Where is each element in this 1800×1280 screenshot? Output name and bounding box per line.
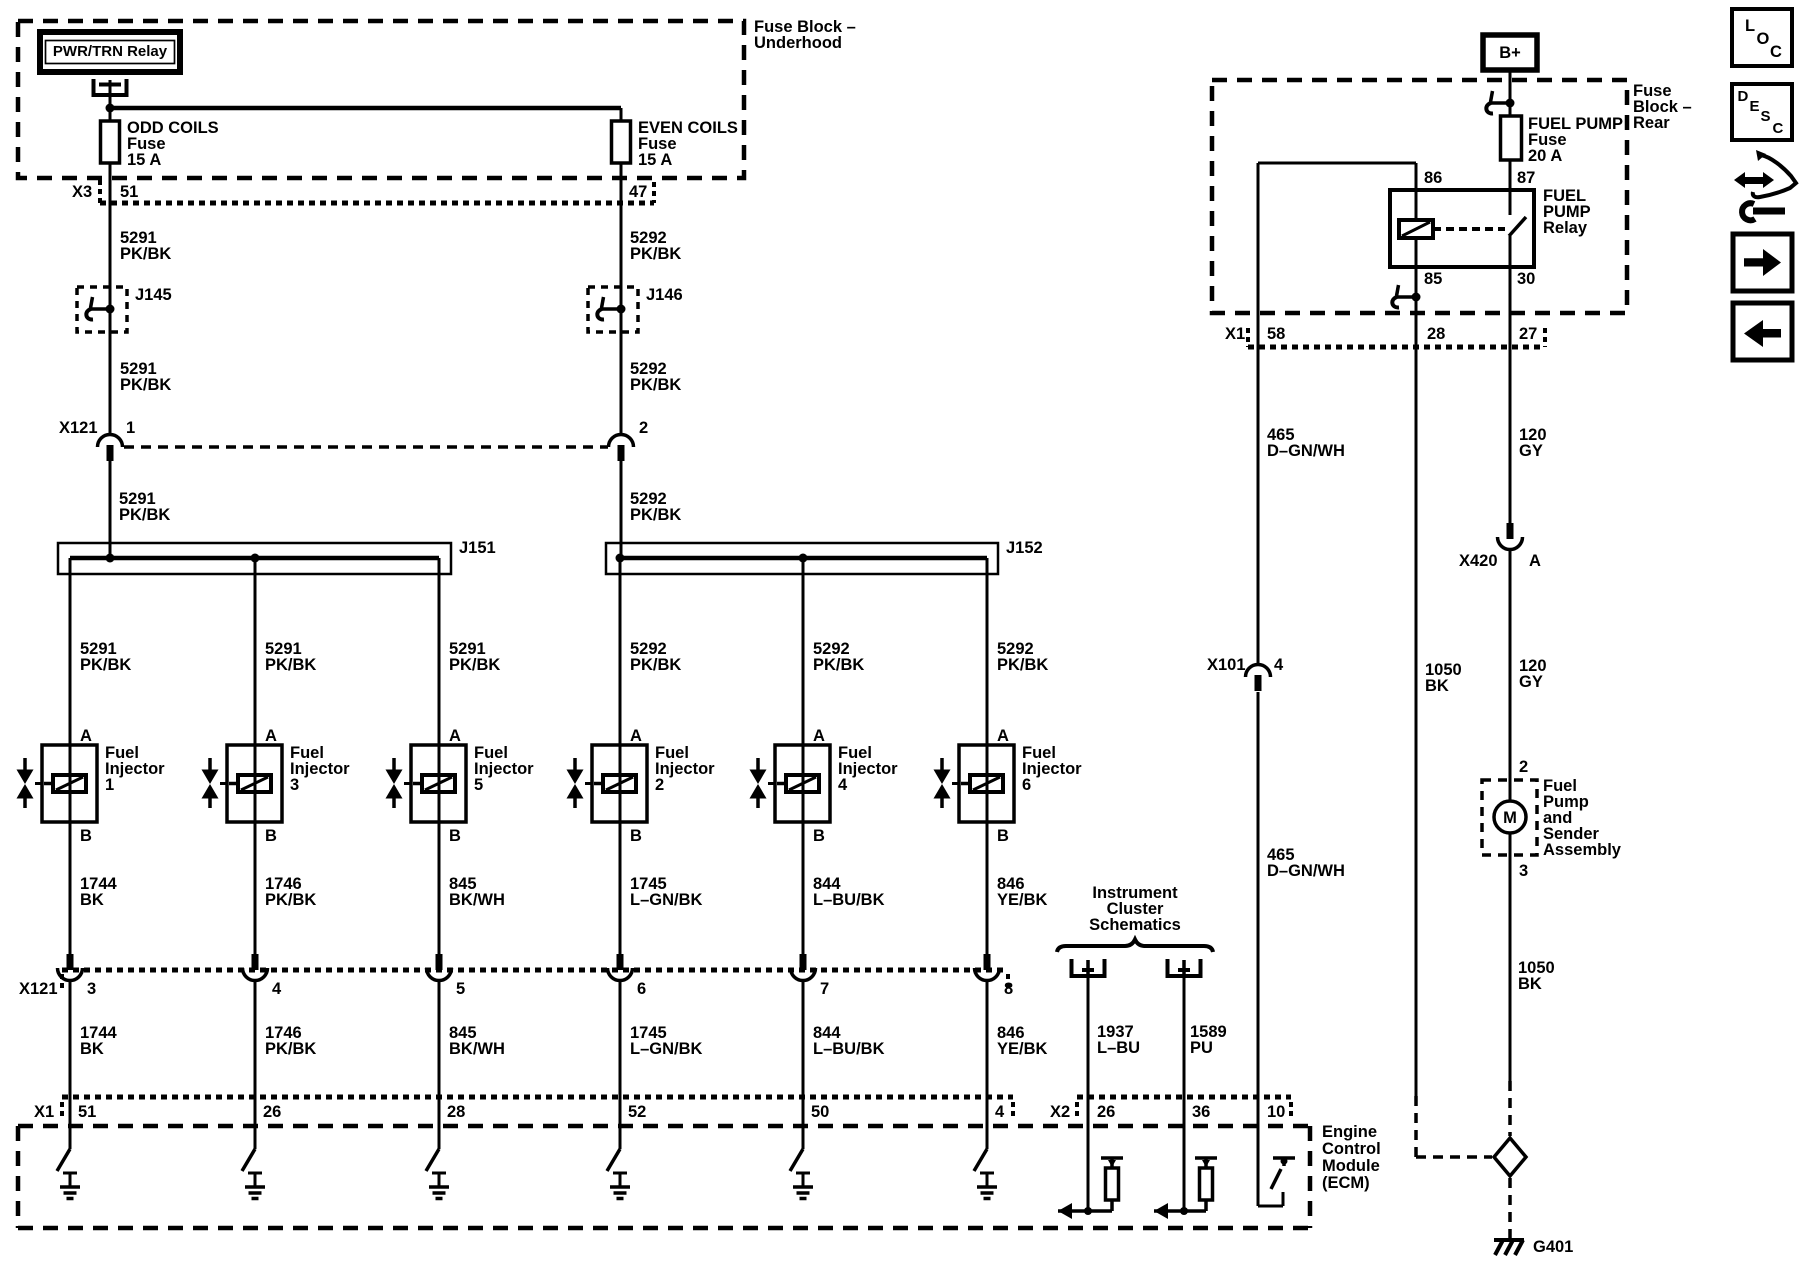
svg-text:87: 87 <box>1517 169 1535 187</box>
svg-text:B: B <box>997 827 1009 845</box>
svg-text:PK/BK: PK/BK <box>630 656 681 674</box>
svg-text:PK/BK: PK/BK <box>630 376 681 394</box>
svg-text:7: 7 <box>820 980 829 998</box>
svg-text:M: M <box>1503 809 1517 827</box>
svg-text:Relay: Relay <box>1543 219 1588 237</box>
svg-text:Rear: Rear <box>1633 114 1670 132</box>
svg-text:E: E <box>1750 98 1760 115</box>
svg-text:A: A <box>80 727 92 745</box>
svg-text:PWR/TRN Relay: PWR/TRN Relay <box>53 43 168 60</box>
svg-text:X420: X420 <box>1459 552 1498 570</box>
svg-text:X121: X121 <box>59 419 98 437</box>
svg-text:B: B <box>80 827 92 845</box>
svg-text:J146: J146 <box>646 286 683 304</box>
svg-text:PK/BK: PK/BK <box>265 1040 316 1058</box>
svg-text:1: 1 <box>126 419 135 437</box>
svg-text:28: 28 <box>1427 325 1445 343</box>
svg-text:O: O <box>1757 30 1770 48</box>
svg-text:28: 28 <box>447 1103 465 1121</box>
svg-text:8: 8 <box>1004 980 1013 998</box>
svg-text:L: L <box>1745 17 1755 35</box>
svg-text:6: 6 <box>637 980 646 998</box>
svg-text:PK/BK: PK/BK <box>813 656 864 674</box>
svg-text:15 A: 15 A <box>638 151 672 169</box>
svg-text:A: A <box>265 727 277 745</box>
svg-text:52: 52 <box>628 1103 646 1121</box>
svg-text:3: 3 <box>290 776 299 794</box>
svg-text:X101: X101 <box>1207 656 1246 674</box>
svg-text:A: A <box>1529 552 1541 570</box>
svg-text:YE/BK: YE/BK <box>997 891 1048 909</box>
svg-text:Engine: Engine <box>1322 1123 1377 1141</box>
svg-text:Module: Module <box>1322 1157 1380 1175</box>
svg-text:36: 36 <box>1192 1103 1210 1121</box>
svg-text:G401: G401 <box>1533 1238 1573 1256</box>
svg-text:PK/BK: PK/BK <box>449 656 500 674</box>
svg-text:85: 85 <box>1424 270 1442 288</box>
svg-text:GY: GY <box>1519 673 1543 691</box>
svg-text:1: 1 <box>105 776 114 794</box>
svg-text:L–BU/BK: L–BU/BK <box>813 1040 885 1058</box>
svg-text:BK/WH: BK/WH <box>449 1040 505 1058</box>
svg-text:BK: BK <box>80 891 104 909</box>
svg-text:A: A <box>813 727 825 745</box>
svg-text:2: 2 <box>1519 758 1528 776</box>
svg-text:J151: J151 <box>459 539 496 557</box>
svg-text:L–BU: L–BU <box>1097 1039 1140 1057</box>
svg-text:C: C <box>1770 43 1782 61</box>
svg-text:PK/BK: PK/BK <box>120 245 171 263</box>
svg-text:20 A: 20 A <box>1528 147 1562 165</box>
svg-text:PK/BK: PK/BK <box>265 656 316 674</box>
svg-text:PK/BK: PK/BK <box>630 506 681 524</box>
svg-text:X1: X1 <box>1225 325 1245 343</box>
svg-text:4: 4 <box>272 980 282 998</box>
svg-text:B: B <box>449 827 461 845</box>
svg-text:X3: X3 <box>72 183 92 201</box>
svg-text:PK/BK: PK/BK <box>630 245 681 263</box>
svg-text:L–GN/BK: L–GN/BK <box>630 891 703 909</box>
svg-text:X2: X2 <box>1050 1103 1070 1121</box>
svg-text:C: C <box>1773 120 1784 137</box>
svg-text:4: 4 <box>838 776 848 794</box>
svg-text:2: 2 <box>655 776 664 794</box>
svg-text:PU: PU <box>1190 1039 1213 1057</box>
svg-text:GY: GY <box>1519 442 1543 460</box>
svg-text:PK/BK: PK/BK <box>120 376 171 394</box>
svg-text:Underhood: Underhood <box>754 34 842 52</box>
svg-text:B: B <box>265 827 277 845</box>
svg-text:27: 27 <box>1519 325 1537 343</box>
svg-text:3: 3 <box>1519 862 1528 880</box>
svg-text:10: 10 <box>1267 1103 1285 1121</box>
svg-text:Schematics: Schematics <box>1089 916 1181 934</box>
svg-text:15 A: 15 A <box>127 151 161 169</box>
svg-text:PK/BK: PK/BK <box>80 656 131 674</box>
svg-text:A: A <box>449 727 461 745</box>
svg-text:4: 4 <box>1274 656 1284 674</box>
svg-text:Assembly: Assembly <box>1543 841 1622 859</box>
svg-text:30: 30 <box>1517 270 1535 288</box>
svg-text:B: B <box>630 827 642 845</box>
svg-text:BK: BK <box>80 1040 104 1058</box>
svg-text:26: 26 <box>263 1103 281 1121</box>
svg-text:BK/WH: BK/WH <box>449 891 505 909</box>
svg-text:51: 51 <box>120 183 138 201</box>
svg-text:B+: B+ <box>1499 44 1521 62</box>
svg-text:J152: J152 <box>1006 539 1043 557</box>
svg-text:PK/BK: PK/BK <box>119 506 170 524</box>
svg-text:A: A <box>997 727 1009 745</box>
svg-text:D–GN/WH: D–GN/WH <box>1267 862 1345 880</box>
svg-text:(ECM): (ECM) <box>1322 1174 1370 1192</box>
svg-text:5: 5 <box>456 980 465 998</box>
svg-text:L–BU/BK: L–BU/BK <box>813 891 885 909</box>
svg-text:J145: J145 <box>135 286 172 304</box>
svg-text:BK: BK <box>1518 975 1542 993</box>
svg-text:X1: X1 <box>34 1103 54 1121</box>
svg-text:Control: Control <box>1322 1140 1381 1158</box>
svg-text:BK: BK <box>1425 677 1449 695</box>
svg-text:D: D <box>1738 88 1749 105</box>
svg-text:5: 5 <box>474 776 483 794</box>
svg-text:50: 50 <box>811 1103 829 1121</box>
svg-text:4: 4 <box>995 1103 1005 1121</box>
svg-text:YE/BK: YE/BK <box>997 1040 1048 1058</box>
svg-text:PK/BK: PK/BK <box>997 656 1048 674</box>
svg-text:X121: X121 <box>19 980 58 998</box>
svg-text:2: 2 <box>639 419 648 437</box>
svg-text:26: 26 <box>1097 1103 1115 1121</box>
svg-text:47: 47 <box>629 183 647 201</box>
svg-text:L–GN/BK: L–GN/BK <box>630 1040 703 1058</box>
svg-text:D–GN/WH: D–GN/WH <box>1267 442 1345 460</box>
svg-text:A: A <box>630 727 642 745</box>
svg-text:3: 3 <box>87 980 96 998</box>
svg-text:S: S <box>1761 108 1771 125</box>
svg-text:6: 6 <box>1022 776 1031 794</box>
svg-text:PK/BK: PK/BK <box>265 891 316 909</box>
svg-text:B: B <box>813 827 825 845</box>
svg-text:86: 86 <box>1424 169 1442 187</box>
svg-text:58: 58 <box>1267 325 1285 343</box>
svg-text:51: 51 <box>78 1103 96 1121</box>
